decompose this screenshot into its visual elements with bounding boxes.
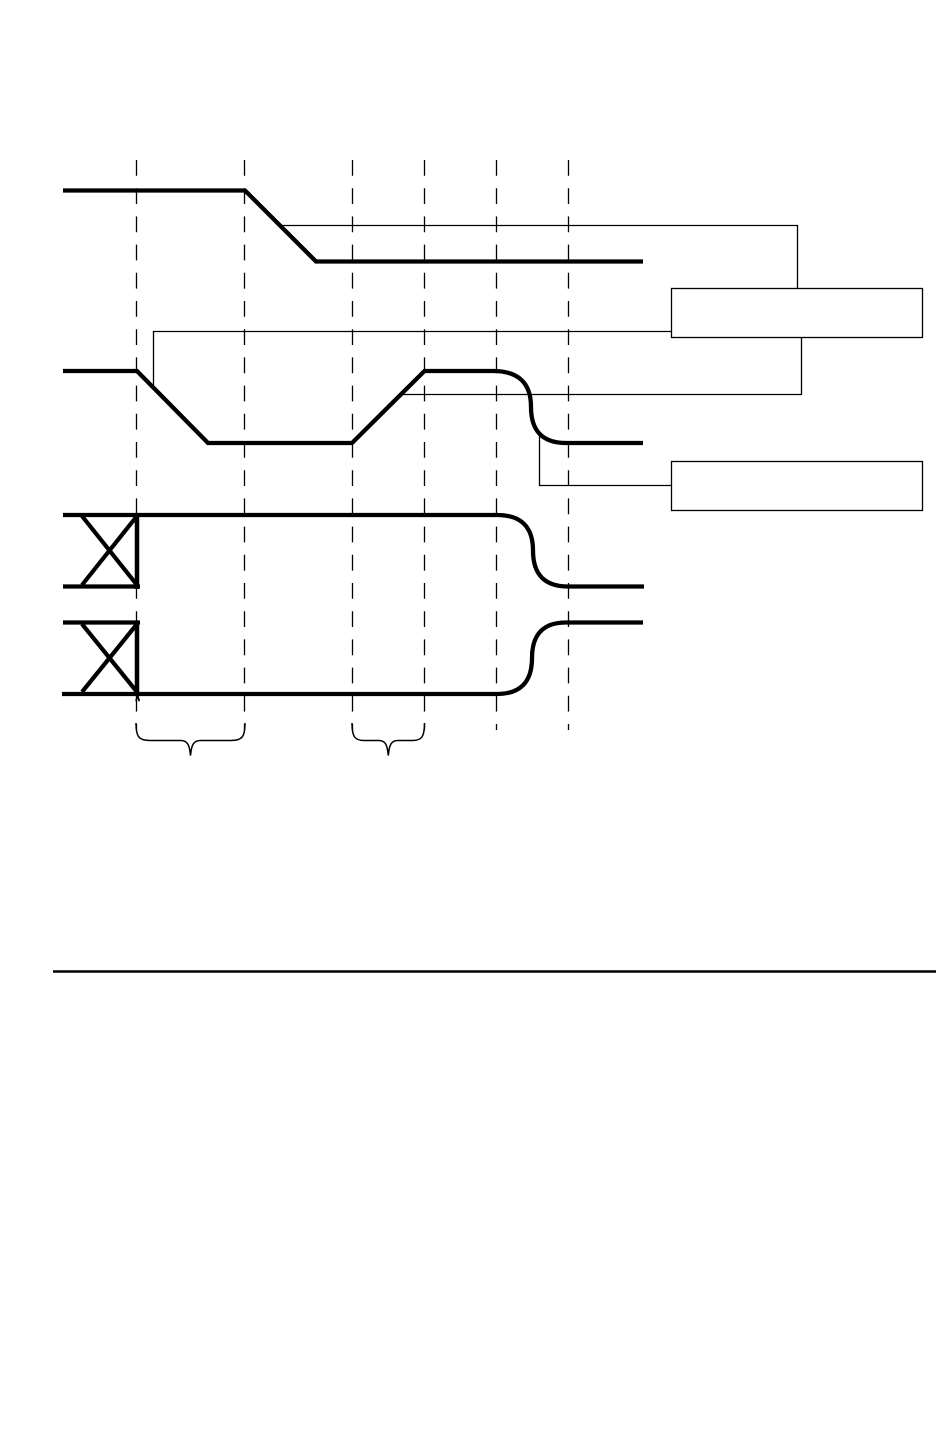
leader line from waveform 2 rising edge to callout box 1 bottom [401,338,802,395]
waveform signal 3 crossing right edge vertical [135,513,140,589]
leader line from waveform 2 s-curve to callout box 2 left [540,434,672,486]
waveform signal 4 invalid-data high segment [63,620,140,624]
waveform signal 3 invalid-data low segment [63,584,140,588]
leader line from waveform 2 falling edge to callout box 1 left [154,332,672,387]
timing reference dashed line T3 [352,160,354,730]
timing reference dashed line T4 [424,160,426,730]
arrowhead marker below waveform 4 at T1 [136,695,139,700]
waveform signal 3 main trace (high then s-curve fall) [63,515,644,587]
waveform signal 4 crossing diagonal b [82,624,137,692]
timing reference dashed line T6 [568,160,570,730]
callout box 2 (empty annotation box) [672,462,923,511]
waveform signal 4 main trace (low then s-curve rise) [62,623,643,695]
waveform signal 2 (fall, rise, s-curve fall) [63,371,643,443]
waveform signal 4 crossing diagonal a [82,624,137,692]
footer horizontal rule [53,970,936,972]
timing reference dashed line T1 [136,160,138,730]
timing reference dashed line T2 [244,160,246,730]
waveform signal 3 crossing diagonal a [82,516,137,585]
brace (measurement bracket) under T3-T4 interval [352,723,425,756]
brace (measurement bracket) under T1-T2 interval [136,723,245,756]
waveform signal 3 crossing diagonal b [82,516,137,585]
callout box 1 (empty annotation box) [672,289,923,338]
leader line from waveform 1 falling edge to callout box 1 top [281,226,798,289]
waveform signal 1 (high-to-low transition) [63,191,643,262]
timing reference dashed line T5 [496,160,498,730]
waveform signal 4 crossing right edge vertical [135,621,140,697]
